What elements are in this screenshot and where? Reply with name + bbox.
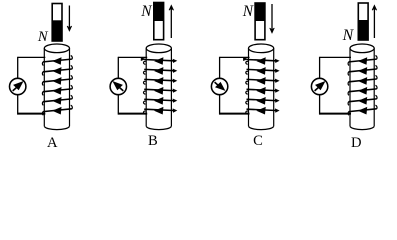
coil C turn 2 (246, 67, 280, 75)
svg-text:N: N (242, 3, 254, 20)
svg-text:B: B (148, 133, 158, 149)
coil C turn 6 (246, 107, 280, 115)
magnet motion arrow A (down) (67, 6, 72, 32)
wire left vertical B (117, 57, 119, 115)
galvanometer D (311, 78, 327, 94)
bar magnet A black pole (52, 20, 63, 41)
coil A turn 6 (42, 105, 72, 115)
coil A turn 1 (42, 56, 72, 66)
coil cylinder B top ellipse (146, 44, 171, 53)
bar magnet A outline (52, 4, 62, 42)
wire top C (220, 56, 250, 58)
wire left vertical C (219, 57, 221, 115)
coil cylinder C top ellipse (249, 44, 274, 53)
svg-text:D: D (351, 135, 362, 151)
coil B turn 1 (143, 57, 177, 65)
coil D turn 2 (348, 65, 377, 75)
galvanometer A (10, 78, 26, 94)
svg-text:N: N (342, 27, 355, 44)
galvanometer B (110, 78, 126, 94)
coil B turn 2 (143, 67, 177, 75)
svg-text:N: N (37, 29, 49, 45)
coil cylinder C body (249, 48, 274, 129)
wire top B (118, 56, 147, 58)
coil C turn 4 (246, 87, 280, 95)
coil A turn 2 (42, 65, 72, 75)
panel B group (110, 2, 177, 149)
coil cylinder A top ellipse (44, 44, 69, 53)
coil A turn 5 (42, 95, 72, 105)
coil B turn 5 (143, 97, 177, 105)
bar magnet C outline (255, 3, 265, 40)
coil C turn 5 (246, 97, 280, 105)
bar magnet C black pole (255, 3, 266, 21)
bar magnet B black pole (153, 2, 164, 21)
wire bottom A (18, 113, 46, 115)
coil D turn 1 (348, 56, 377, 66)
coil D turn 3 (348, 75, 377, 85)
wire left vertical A (17, 57, 19, 115)
coil D turn 6 (348, 105, 377, 115)
wire bottom B (118, 113, 147, 115)
bar magnet D outline (358, 3, 368, 40)
wire bottom D (320, 113, 351, 115)
coil D turn 4 (348, 85, 377, 95)
coil cylinder B body (146, 48, 171, 129)
coil D turn 5 (348, 95, 377, 105)
wire bottom C (220, 113, 250, 115)
coil A turn 3 (42, 75, 72, 85)
wire top D (320, 56, 351, 58)
coil cylinder A body (44, 48, 69, 129)
panel A group (10, 4, 73, 152)
coil cylinder D body (350, 48, 374, 129)
wire left vertical D (319, 57, 321, 115)
magnet motion arrow D (up) (372, 5, 377, 38)
wire top arrow B (141, 57, 146, 61)
galvanometer C (211, 78, 227, 94)
bar magnet D black pole (358, 20, 369, 40)
bar magnet B outline (154, 3, 164, 40)
coil A turn 4 (42, 85, 72, 95)
panel D group (311, 3, 377, 151)
panel C group (211, 3, 279, 149)
coil B turn 3 (143, 77, 177, 85)
coil B turn 4 (143, 87, 177, 95)
wire top arrow C (243, 57, 248, 61)
coil B turn 6 (143, 107, 177, 115)
coil C turn 1 (246, 57, 280, 65)
svg-text:N: N (140, 3, 152, 20)
wire top A (18, 56, 46, 58)
magnet motion arrow B (up) (169, 5, 174, 38)
svg-text:A: A (47, 135, 58, 151)
svg-text:C: C (253, 133, 263, 149)
magnet motion arrow C (down) (270, 4, 275, 33)
coil C turn 3 (246, 77, 280, 85)
coil cylinder D top ellipse (350, 44, 374, 53)
